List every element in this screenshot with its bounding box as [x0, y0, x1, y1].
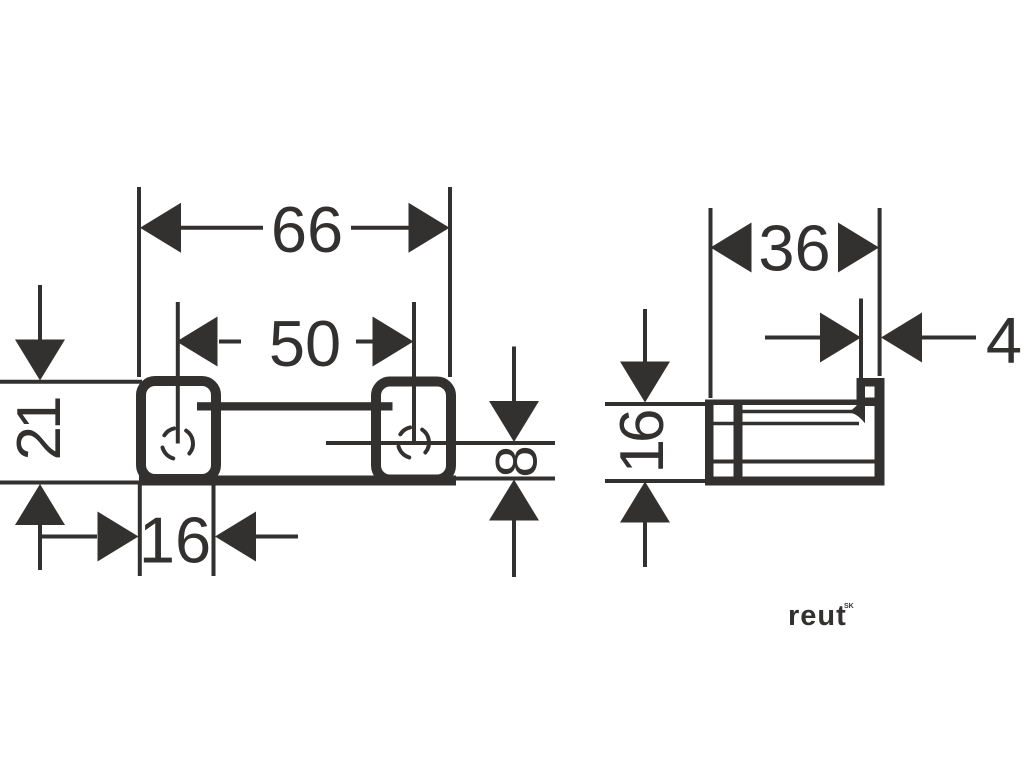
svg-text:reut: reut: [788, 600, 847, 632]
svg-text:SK: SK: [844, 603, 854, 610]
svg-text:16: 16: [139, 504, 211, 577]
svg-text:66: 66: [271, 193, 343, 266]
svg-text:16: 16: [608, 411, 677, 473]
svg-text:36: 36: [758, 212, 830, 285]
svg-text:4: 4: [986, 304, 1022, 377]
svg-text:21: 21: [5, 398, 74, 460]
svg-text:8: 8: [485, 445, 550, 477]
svg-text:50: 50: [269, 307, 341, 380]
